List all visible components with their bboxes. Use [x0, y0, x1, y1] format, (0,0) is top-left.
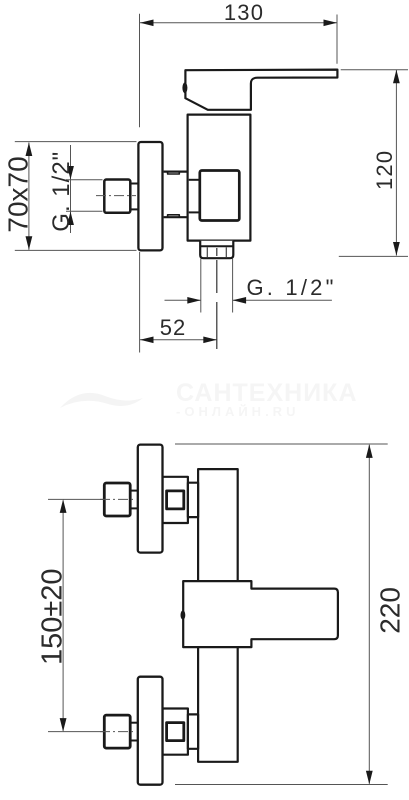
svg-text:-ОНЛАЙН.RU: -ОНЛАЙН.RU [176, 404, 299, 419]
svg-text:САНТЕХНИКА: САНТЕХНИКА [176, 379, 358, 407]
svg-text:130: 130 [224, 0, 264, 25]
svg-text:220: 220 [374, 587, 405, 634]
svg-text:G. 1/2": G. 1/2" [247, 275, 337, 300]
svg-text:120: 120 [372, 150, 397, 190]
svg-text:52: 52 [160, 315, 186, 340]
svg-text:G. 1/2": G. 1/2" [48, 151, 75, 232]
svg-text:150±20: 150±20 [37, 568, 69, 665]
svg-text:70x70: 70x70 [3, 156, 34, 232]
